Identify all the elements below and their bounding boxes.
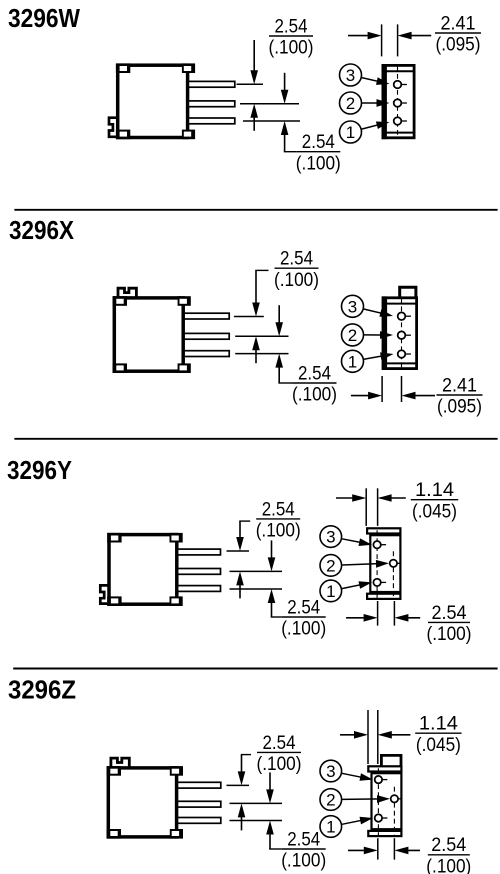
svg-text:2.54: 2.54 [280,248,313,270]
svg-text:2: 2 [348,326,357,345]
3296W dimension 2.54 (.100) upper pin spacing [253,40,255,76]
3296W front view body [118,65,188,137]
3296W extension line pin 1 centerline [243,120,300,122]
3296Z pin 2 lead [178,801,221,807]
3296Y side view body [370,535,400,592]
3296Z side view pin 1 [375,814,382,821]
section divider [14,438,497,440]
3296W terminal label 2 [362,102,383,104]
svg-text:1: 1 [326,582,335,601]
3296X side view pin centerline [401,298,403,368]
svg-text:(.095): (.095) [436,34,481,56]
3296Z side view top cap [368,766,401,771]
3296Y pin offset dimension 1.14 (.045) [365,488,367,526]
3296Y pin 3 lead [178,549,221,555]
3296X terminal label 2 [364,334,387,336]
3296W adjustment screw notch [109,118,117,137]
svg-text:2.54: 2.54 [431,834,466,856]
svg-text:1.14: 1.14 [415,479,454,501]
svg-text:(.045): (.045) [412,500,457,522]
3296X side view pin 2 [398,331,406,339]
3296Y side view top cap [367,528,400,533]
3296X body-to-pin dimension 2.41 (.095) [381,376,383,402]
3296Z side view body [372,773,402,829]
svg-text:(.100): (.100) [269,37,314,59]
3296W side view pin 2 [394,99,402,107]
3296X corner pad top-left [113,296,127,306]
3296Z terminal label 1 [342,819,367,824]
3296Y side view bottom cap [367,594,400,599]
svg-text:2: 2 [346,94,355,113]
svg-text:3296Y: 3296Y [7,457,72,485]
3296Z terminal label 2 [342,798,383,801]
3296W extension line pin 2 centerline [240,103,299,105]
3296W pin 2 lead [188,101,234,107]
svg-text:(.100): (.100) [274,269,319,291]
3296W side view pin 3 [394,81,402,89]
svg-text:2.54: 2.54 [432,602,467,624]
3296W terminal label 3 [362,78,384,83]
svg-text:(.100): (.100) [256,520,301,542]
3296W extension line pin 3 centerline [237,83,264,85]
3296Z corner pad bottom-left [107,829,121,839]
svg-text:3296X: 3296X [9,217,74,245]
3296X side view screw boss [400,287,416,297]
3296Z corner pad top-right [170,766,183,776]
3296Y side view pin 1-3 centerline [376,530,378,598]
3296Y terminal label 2 [342,564,382,566]
svg-text:3296W: 3296W [8,5,81,33]
3296X dimension 2.54 (.100) upper pin spacing [255,269,268,271]
3296Z side view bottom cap [368,831,401,836]
svg-text:1: 1 [346,123,355,142]
3296X front view body [114,298,183,371]
svg-text:2.41: 2.41 [442,374,477,396]
3296Y side view pin 2 centerline [392,551,394,598]
3296X corner pad bottom-left [113,363,127,373]
svg-text:(.100): (.100) [292,384,337,406]
3296Z side view screw boss [381,755,401,765]
3296Y extension line pin 2 centerline [230,570,283,572]
svg-text:2: 2 [326,791,335,810]
svg-text:2.54: 2.54 [298,362,331,384]
svg-text:3: 3 [326,528,335,547]
svg-text:1: 1 [326,818,335,837]
3296Z terminal label 3 [342,773,367,778]
3296Z dimension 2.54 (.100) upper pin spacing [241,754,251,756]
svg-text:1.14: 1.14 [419,713,458,735]
svg-text:2.54: 2.54 [287,828,320,850]
svg-text:3: 3 [348,297,357,316]
3296X terminal label 3 [364,309,387,315]
3296Z corner pad top-left [107,766,121,776]
3296Z pin 3 lead [178,782,221,788]
3296Z pin offset dimension 1.14 (.045) [367,710,369,764]
3296Z side view pin 1-3 centerline [377,768,379,835]
3296Z dimension 2.54 (.100) lower pin spacing [269,772,271,795]
3296X extension line pin 2 centerline [235,335,288,337]
3296Y corner pad top-left [107,533,121,543]
svg-text:2.54: 2.54 [287,596,320,618]
svg-text:1: 1 [348,352,357,371]
svg-text:2.54: 2.54 [263,732,296,754]
3296X dimension 2.54 (.100) lower pin spacing [278,305,280,328]
3296Y side view pin 1 [373,579,380,586]
svg-text:3: 3 [326,762,335,781]
3296X side view body [383,298,417,369]
3296Z pin column spacing dimension 2.54 (.100) [377,838,379,859]
svg-text:(.100): (.100) [296,152,341,174]
3296Y front view body [109,535,177,605]
3296Z corner pad bottom-right [170,829,183,839]
3296Y pin column spacing dimension 2.54 (.100) [377,601,379,626]
3296X pin 3 lead [184,313,229,319]
3296Z pin 1 lead [178,818,221,824]
3296Z extension line pin 1 centerline [230,820,283,822]
3296Z side view pin 2 centerline [393,787,395,835]
svg-text:(.100): (.100) [426,855,471,874]
3296Y side view pin 3 [373,541,380,548]
3296Y corner pad top-right [170,533,183,543]
3296Y terminal label 3 [342,539,366,544]
3296W pin 1 lead [188,118,234,124]
3296W pin 3 lead [188,81,234,87]
3296X side view pin 3 [398,312,406,320]
svg-text:2.54: 2.54 [302,131,335,153]
3296Y pin 2 lead [178,569,221,575]
3296X corner pad top-right [178,296,191,306]
svg-text:2: 2 [326,556,335,575]
3296Z extension line pin 2 centerline [230,802,283,804]
3296Y corner pad bottom-left [107,596,121,606]
3296X side view pin 1 [398,350,406,358]
svg-text:(.100): (.100) [281,850,326,872]
3296Y pin 1 lead [178,586,221,592]
3296Y terminal label 1 [342,584,366,589]
svg-text:3: 3 [346,66,355,85]
3296Y dimension 2.54 (.100) upper pin spacing [239,520,250,522]
3296W body-to-pin dimension 2.41 (.095) [381,24,383,56]
3296Z front view body [108,768,176,837]
svg-text:2.41: 2.41 [441,12,476,34]
3296Y dimension 2.54 (.100) lower pin spacing [271,540,273,563]
3296W dimension 2.54 (.100) lower pin spacing [284,73,286,96]
svg-text:(.100): (.100) [427,623,472,645]
svg-text:(.100): (.100) [281,618,326,640]
svg-text:(.100): (.100) [257,753,302,775]
3296X pin 2 lead [184,333,229,339]
3296W terminal label 1 [362,124,384,130]
svg-text:(.045): (.045) [416,734,461,756]
3296Z extension line pin 3 centerline [227,784,250,786]
3296Z side view pin 2 [391,795,398,802]
3296X pin 1 lead [184,351,229,357]
3296Y adjustment screw notch [100,585,108,603]
3296W side view body [383,65,414,137]
svg-text:2.54: 2.54 [262,498,295,520]
svg-text:3296Z: 3296Z [8,677,76,705]
3296X extension line pin 3 centerline [234,316,264,318]
3296W corner pad bottom-right [182,130,195,140]
3296Y extension line pin 3 centerline [227,550,250,552]
3296Y side view pin 2 [390,560,397,567]
3296Z side view pin 3 [375,776,382,783]
section divider [14,209,497,211]
3296W side view pin centerline [397,66,399,137]
3296W corner pad bottom-left [116,130,130,140]
svg-text:2.54: 2.54 [275,15,308,37]
3296W corner pad top-left [116,63,130,73]
svg-text:(.095): (.095) [437,396,482,418]
3296W corner pad top-right [182,63,195,73]
3296X adjustment screw notch [118,288,136,297]
3296Y extension line pin 1 centerline [230,588,283,590]
3296W side view pin 1 [394,117,402,125]
section divider [13,668,497,670]
3296X extension line pin 1 centerline [235,353,288,355]
3296Z adjustment screw notch [111,758,129,767]
3296Y corner pad bottom-right [170,596,183,606]
3296X corner pad bottom-right [178,363,191,373]
3296X terminal label 1 [364,355,387,359]
